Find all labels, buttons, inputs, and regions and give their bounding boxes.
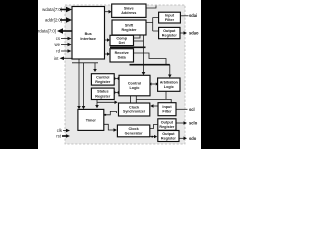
wire: [154, 135, 157, 138]
output register scl box: [158, 119, 176, 131]
wire: shift reg right to filter column: [146, 18, 158, 32]
wire: status bottom to clock sync: [97, 101, 115, 103]
signal cs: [61, 38, 68, 40]
wire: control logic to arbitration: [150, 83, 157, 85]
right black bar: [201, 0, 240, 149]
wire: [113, 91, 115, 94]
wire: scl output register to pad: [176, 122, 184, 124]
wire: shift register right nest 1: [134, 35, 141, 38]
wire: output register to sda arrow: [180, 32, 184, 34]
svg-text:scl: scl: [189, 107, 195, 112]
svg-text:rd: rd: [56, 49, 60, 54]
input filter scl box: [158, 103, 176, 116]
wire: clock gen to scl output register: [150, 125, 158, 129]
wire: sda output register to pad: [179, 137, 184, 139]
svg-text:sdai: sdai: [189, 13, 197, 18]
wire: [109, 10, 112, 14]
clock synchronizer box: [119, 103, 150, 116]
control register box: [91, 74, 114, 85]
clock generator box: [117, 125, 149, 137]
wire: [156, 82, 158, 85]
svg-text:ControlLogic: ControlLogic: [128, 81, 141, 90]
output register sda box: [159, 27, 180, 38]
wire: vertical to control register: [94, 63, 96, 70]
wire: [113, 77, 115, 80]
svg-text:int: int: [54, 56, 59, 61]
svg-text:clk: clk: [57, 128, 63, 133]
wire: arbitration bottom down: [165, 91, 167, 99]
junction dot: [104, 114, 106, 116]
wire: [107, 52, 110, 56]
wire: [184, 31, 188, 35]
wire: [115, 101, 118, 105]
output register sda2 box: [158, 131, 179, 142]
wire: long vertical from shift register to control logic: [143, 35, 145, 73]
wire: [150, 104, 153, 107]
bus addr in: [60, 19, 67, 21]
wire: control logic bottom stubs: [131, 96, 137, 103]
signal rst in: [62, 135, 67, 137]
slave address box: [112, 4, 146, 17]
page background: [0, 0, 240, 149]
svg-text:sdao: sdao: [189, 31, 199, 36]
wire: [118, 91, 120, 94]
wire: vertical to timer 2: [83, 63, 85, 107]
wire: slave address over the top: [146, 6, 156, 9]
wire: bus below interface box: [72, 62, 98, 64]
wire: shift register right nest 2: [134, 40, 144, 42]
svg-text:rdata[7:0]: rdata[7:0]: [38, 29, 56, 34]
svg-text:InputFilter: InputFilter: [165, 14, 175, 22]
wire: [93, 69, 97, 72]
svg-text:ControlRegister: ControlRegister: [95, 75, 111, 84]
wire: interface to receive data: [105, 53, 108, 55]
svg-text:StatusRegister: StatusRegister: [95, 90, 111, 99]
wire: receive data right to arbitration feed: [134, 53, 167, 65]
wire: clock gen to sda output register: [150, 136, 155, 138]
wire: [95, 105, 99, 108]
wire: [107, 38, 110, 42]
svg-text:Timer: Timer: [86, 118, 97, 122]
wire: status reg to control logic: [114, 92, 119, 94]
chip outline (dashed): [65, 5, 185, 144]
status register box: [91, 88, 114, 99]
svg-text:addr[2:0]: addr[2:0]: [45, 18, 62, 23]
wire: scl input filter to pad: [176, 108, 188, 110]
junction dot: [151, 136, 153, 138]
signal we: [61, 44, 68, 46]
timer box: [78, 109, 104, 130]
wire: [82, 106, 86, 109]
wire: control reg to control logic: [114, 78, 119, 80]
wire: thick bus between comp and receive boxes: [110, 46, 146, 48]
input filter sda box: [159, 12, 181, 23]
interface box U1: [72, 7, 105, 60]
receive data box: [110, 49, 134, 62]
control logic box: [119, 75, 150, 96]
svg-text:sdo: sdo: [189, 136, 197, 141]
wire: down into arbitration logic: [169, 65, 171, 75]
wire: [118, 77, 120, 80]
wire: interface to comp: [105, 39, 108, 41]
signal rd: [61, 50, 68, 52]
wire: to scl input filter top: [136, 99, 171, 102]
svg-text:sclo: sclo: [189, 121, 198, 126]
svg-text:OutputRegister: OutputRegister: [162, 29, 178, 38]
wire: [184, 137, 188, 141]
signal int out: [63, 58, 79, 63]
svg-text:InputFilter: InputFilter: [162, 105, 172, 114]
svg-text:OutputRegister: OutputRegister: [159, 120, 175, 129]
wire: thick horizontal feed: [130, 64, 170, 66]
signal clk in: [63, 130, 67, 132]
bus rdata out: [62, 30, 72, 32]
wire: [168, 75, 172, 78]
svg-text:we: we: [55, 42, 61, 47]
wire: [114, 128, 118, 132]
svg-text:cs: cs: [56, 36, 60, 41]
wire: [77, 106, 81, 109]
wire: scl filter to clock sync: [153, 105, 159, 107]
svg-text:wdata[7:0]: wdata[7:0]: [42, 7, 62, 12]
bus wdata in: [60, 9, 67, 11]
wire: interface to slave address: [105, 11, 110, 13]
wire: timer to clock synchronizer: [104, 111, 116, 114]
wire: vertical to timer 1: [78, 63, 80, 107]
wire: timer right to clock generator: [104, 124, 114, 130]
arbitration logic box: [158, 78, 180, 91]
comparator box: [110, 35, 134, 45]
svg-text:OutputRegister: OutputRegister: [161, 132, 177, 141]
shift register box: [112, 20, 146, 35]
wire: [184, 121, 188, 125]
wire: input filter to sda: [180, 15, 188, 17]
wire: [142, 72, 146, 75]
wire: status reg bottom to timer: [96, 100, 98, 106]
wire: [149, 82, 151, 85]
svg-text:rst: rst: [56, 134, 62, 139]
left black bar: [0, 0, 38, 149]
